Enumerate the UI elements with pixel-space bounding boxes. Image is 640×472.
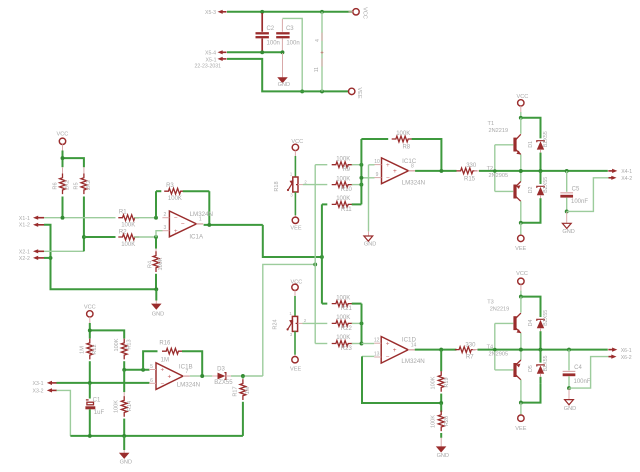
wire VCC to R6/R5 top (62, 151, 64, 159)
resistor R14 100K (123, 392, 125, 396)
svg-text:R2: R2 (119, 229, 127, 235)
junction pin3 node (154, 235, 158, 239)
svg-text:R3: R3 (166, 183, 174, 189)
ground (C4) (568, 388, 570, 399)
svg-text:−: − (174, 215, 178, 222)
svg-text:2K2: 2K2 (86, 180, 92, 190)
svg-text:R9: R9 (342, 167, 350, 173)
svg-text:100K: 100K (114, 400, 120, 413)
capacitor C3 100n (281, 19, 283, 32)
junction R11-R21 bus (320, 255, 324, 259)
wire VCC to R18 (294, 156, 296, 177)
resistor R5 2K2 (83, 167, 85, 174)
wire IC1D input bus (361, 304, 363, 344)
svg-text:+: + (320, 50, 324, 56)
svg-text:R14: R14 (127, 401, 133, 411)
wire T4 base row (495, 369, 514, 371)
supply pin VEE (pot R24) (292, 357, 298, 363)
wire R1 to IC1A pin2 node (134, 217, 156, 219)
svg-text:100K: 100K (336, 295, 350, 301)
junction C3/GND row (281, 50, 285, 54)
IC1 power gate pins 4 and 11 (321, 12, 323, 92)
svg-text:+: + (386, 340, 390, 347)
wire collector rail to zener branch (bottom) (521, 297, 541, 317)
wire IC1D output row (415, 349, 457, 351)
wire R9-R23 vertical bus (314, 165, 316, 344)
resistor R13 100K (123, 339, 125, 344)
wire pin3 node up to IC1A pin3 (156, 231, 163, 237)
diode D3 BZX55 (218, 373, 226, 380)
wire R7 to bottom output stage (478, 349, 608, 351)
resistor R19 100K (440, 350, 442, 372)
junction C1-R12/pin6 row (88, 381, 92, 385)
svg-text:X6-1: X6-1 (621, 348, 632, 354)
junction R6/X1-1 row (61, 216, 65, 220)
svg-text:C1: C1 (93, 397, 101, 403)
svg-text:C4: C4 (574, 365, 582, 371)
junction VCC/R6-R5 (61, 156, 65, 160)
junction R9-R23 bus (313, 262, 317, 266)
svg-text:X2-2: X2-2 (19, 256, 30, 262)
capacitor C1 1uF polarized (89, 383, 91, 399)
junction R19-R20/pin13 loop (439, 401, 443, 405)
junction X2-2/X1-2 net (49, 256, 53, 260)
svg-text:100nF: 100nF (571, 199, 588, 205)
wire R13-R14 chain crossing pin6 row (123, 370, 125, 392)
wire GND net row (X5-4 to C3 bottom) (227, 51, 283, 53)
svg-text:R11: R11 (341, 207, 352, 213)
svg-text:R24: R24 (272, 319, 278, 329)
connector X6-2 wire to GND (569, 357, 609, 389)
svg-text:BZX55: BZX55 (543, 177, 549, 193)
svg-text:VCC: VCC (516, 94, 528, 100)
svg-text:2N2905: 2N2905 (488, 173, 508, 179)
connector X4-1 (612, 169, 617, 173)
wire C3 top to VEE rail (282, 18, 302, 91)
junction R4/GND rail (154, 287, 158, 291)
svg-text:100K: 100K (336, 156, 350, 162)
junction base bus/drive row (bottom) (493, 348, 497, 352)
ground (R20) (440, 438, 442, 447)
wire R11-R21 vertical bus (321, 204, 323, 303)
wire IC1D pin13 feedback loop (362, 356, 441, 403)
svg-text:C3: C3 (286, 26, 294, 32)
connector X5-3 (218, 10, 223, 14)
svg-text:D5: D5 (528, 365, 534, 372)
svg-text:10: 10 (374, 159, 380, 165)
wire IC1C input bus (360, 139, 362, 204)
svg-text:VCC: VCC (362, 7, 368, 19)
resistor R7 330 (455, 347, 476, 353)
svg-text:2K2: 2K2 (65, 180, 71, 190)
supply pin VCC (power section) (353, 9, 359, 15)
svg-text:VEE: VEE (290, 367, 301, 373)
svg-text:100K: 100K (168, 196, 182, 202)
svg-text:+: + (386, 162, 390, 169)
svg-text:GND: GND (364, 242, 376, 248)
svg-text:VCC: VCC (56, 131, 68, 137)
svg-text:12: 12 (374, 338, 380, 344)
svg-text:VCC: VCC (516, 271, 528, 277)
junction C2/top rail (260, 10, 264, 14)
svg-text:+: + (168, 373, 172, 380)
svg-text:R15: R15 (464, 176, 476, 182)
svg-text:BZX55: BZX55 (214, 380, 233, 386)
svg-text:100K: 100K (336, 176, 350, 182)
svg-text:100n: 100n (267, 41, 280, 47)
svg-text:X6-2: X6-2 (621, 355, 632, 361)
wire top rail VCC net (X5-3 to VCC pin) (227, 11, 353, 13)
junction R10/input bus (359, 183, 363, 187)
svg-text:LM324N: LM324N (177, 382, 200, 389)
svg-text:100K: 100K (121, 223, 135, 229)
svg-text:X4-2: X4-2 (621, 176, 632, 182)
wire X2-1 to R2 row (44, 250, 84, 252)
resistor R23 100K (315, 343, 327, 345)
svg-text:R21: R21 (341, 306, 353, 312)
svg-text:100nF: 100nF (573, 379, 590, 385)
wire R15 to output stage (479, 170, 608, 172)
ground (C5) (566, 211, 568, 223)
svg-text:R6: R6 (52, 182, 58, 189)
wire IC1B output up to R9/R23 bus (263, 264, 315, 376)
junction R22/input bus (360, 321, 364, 325)
zener diode D2 BZX55 (540, 171, 542, 184)
svg-text:3: 3 (164, 225, 167, 231)
wire VCC to R12/R13 (89, 323, 91, 330)
op-amp IC1C LM324N (369, 164, 375, 166)
svg-text:IC1D: IC1D (402, 337, 417, 344)
wire T3 base row (495, 322, 514, 324)
svg-text:R19: R19 (444, 377, 450, 387)
wire T2 base row (495, 190, 514, 192)
wire base bus (bottom) (494, 323, 496, 370)
resistor R16 1M (IC1B feedback) (143, 351, 157, 370)
junction R14/GND rail (122, 434, 126, 438)
svg-text:R13: R13 (127, 339, 133, 349)
svg-text:100K: 100K (121, 242, 135, 248)
wire collector rail to zener branch (521, 118, 541, 139)
junction pin2 node (154, 216, 158, 220)
svg-text:2N2219: 2N2219 (488, 128, 508, 134)
junction zener branch/output row (539, 169, 543, 173)
junction base bus/drive row (493, 169, 497, 173)
connector X4-2 wire to GND (567, 178, 609, 212)
resistor R21 100K (322, 303, 327, 305)
junction C1/GND rail (88, 434, 92, 438)
wire GND rail (bottom left) (70, 435, 243, 437)
junction IC1A output/feedback (207, 223, 211, 227)
svg-text:5: 5 (150, 364, 153, 370)
resistor R6 2K2 (62, 167, 64, 174)
resistor R12 1M (89, 339, 91, 344)
svg-text:GND: GND (120, 459, 132, 465)
svg-text:1uF: 1uF (94, 410, 105, 416)
op-amp IC1D LM324N (362, 343, 375, 345)
svg-text:LM324N: LM324N (401, 358, 424, 365)
junction VEE rail (bottom) (519, 401, 523, 405)
svg-text:VEE: VEE (515, 246, 526, 252)
supply pin VEE (power section) (349, 88, 355, 94)
svg-text:−: − (181, 221, 185, 228)
svg-text:R1: R1 (119, 210, 127, 216)
ground (power section) (282, 53, 284, 77)
junction R9/input bus (359, 163, 363, 167)
resistor R8 100K (IC1C feedback) (361, 138, 388, 140)
svg-text:+: + (393, 347, 397, 354)
wire emitter rail to VEE (bottom) (521, 384, 541, 403)
junction output node T1/T2 (519, 169, 523, 173)
junction C4 bottom/GND net (567, 386, 571, 390)
svg-text:BZX55: BZX55 (543, 131, 549, 147)
svg-text:GND: GND (437, 453, 449, 459)
svg-text:VEE: VEE (515, 426, 526, 432)
svg-text:BZX55: BZX55 (543, 310, 549, 326)
svg-text:X5-4: X5-4 (205, 51, 216, 57)
svg-text:100K: 100K (431, 415, 437, 428)
svg-text:2N2219: 2N2219 (490, 306, 510, 312)
resistor R22 100K (332, 321, 353, 327)
svg-text:1M: 1M (161, 357, 169, 363)
svg-text:GND: GND (562, 229, 574, 235)
svg-text:T4: T4 (487, 345, 494, 351)
junction VCC/collector rail (bottom) (519, 295, 523, 299)
resistor R20 100K (440, 403, 442, 412)
svg-text:LM324N: LM324N (402, 179, 425, 186)
svg-text:11: 11 (314, 67, 320, 72)
svg-text:IC1B: IC1B (179, 363, 193, 370)
junction output node T3/T4 (519, 348, 523, 352)
svg-text:D3: D3 (217, 366, 225, 372)
wire R18 wiper to R10 (303, 184, 327, 186)
junction VCC/collector rail (519, 116, 523, 120)
svg-text:330: 330 (465, 343, 476, 349)
svg-text:R5: R5 (74, 182, 80, 189)
svg-text:R7: R7 (466, 354, 474, 360)
op-amp IC1B LM324N (156, 363, 183, 390)
junction IC1C output/R8 feedback (439, 169, 443, 173)
svg-text:+: + (174, 228, 178, 235)
resistor R3 100K (IC1A feedback) (155, 191, 157, 218)
svg-text:C2: C2 (266, 26, 274, 32)
svg-text:VEE: VEE (290, 225, 301, 231)
junction R16/pin5 row (141, 368, 145, 372)
junction VCC/R12-R13 (88, 328, 92, 332)
resistor R2 100K (84, 236, 116, 238)
svg-text:6: 6 (150, 378, 153, 384)
capacitor C4 100nF (567, 348, 571, 352)
resistor R17 1M (242, 376, 244, 378)
wire IC1B output to D3 (190, 375, 202, 377)
ground (IC1A section) (155, 289, 157, 300)
svg-text:R10: R10 (341, 187, 353, 193)
svg-text:X5-3: X5-3 (205, 10, 216, 16)
svg-text:4: 4 (315, 39, 321, 42)
junction zener branch/output row (bottom) (539, 348, 543, 352)
connector X6-1 (612, 348, 617, 352)
junction C5 bottom/GND net (565, 209, 569, 213)
junction C2/GND row (260, 50, 264, 54)
svg-text:1M: 1M (245, 386, 251, 394)
wire T1 base row (495, 144, 514, 146)
svg-text:T1: T1 (488, 121, 495, 127)
junction D3/R17 (241, 374, 245, 378)
svg-text:+: + (393, 168, 397, 175)
capacitor C5 100nF (565, 169, 569, 173)
zener diode D5 BZX55 (540, 350, 542, 363)
svg-text:X4-1: X4-1 (621, 169, 632, 175)
svg-text:R23: R23 (341, 346, 353, 352)
svg-text:VCC: VCC (84, 304, 96, 310)
wire IC1C pin10 to ground (368, 165, 370, 232)
connector X5-1 (218, 57, 223, 61)
resistor R11 100K (322, 203, 327, 205)
resistor R1 100K (118, 215, 139, 221)
svg-text:R22: R22 (341, 326, 353, 332)
svg-text:9: 9 (376, 172, 379, 178)
svg-text:100K: 100K (336, 315, 350, 321)
svg-text:D4: D4 (528, 319, 534, 326)
zener diode D1 BZX55 (537, 141, 544, 143)
op-amp IC1A LM324N (169, 211, 196, 237)
wire X3-1 / pin6 row (57, 382, 150, 384)
svg-text:100K: 100K (114, 338, 120, 351)
junction IC1B output/R16 (200, 374, 204, 378)
svg-text:100K: 100K (336, 196, 350, 202)
svg-text:+: + (161, 367, 165, 374)
resistor R9 100K (315, 164, 327, 166)
wire X3-2 to GND rail (57, 390, 71, 436)
svg-text:100n: 100n (286, 41, 299, 47)
svg-text:22-23-2031: 22-23-2031 (195, 63, 222, 69)
svg-text:330: 330 (466, 163, 477, 169)
svg-text:D1: D1 (528, 141, 534, 148)
svg-text:R8: R8 (402, 145, 410, 151)
wire emitter rail to VEE (521, 204, 541, 223)
ground (IC1B section) (123, 436, 125, 450)
wire IC1C output row (415, 170, 456, 172)
svg-text:R17: R17 (233, 386, 239, 396)
wire R18 to VEE (294, 192, 296, 215)
svg-text:X3-1: X3-1 (33, 381, 44, 387)
svg-text:GND: GND (564, 406, 576, 412)
svg-text:R16: R16 (159, 341, 171, 347)
svg-text:X1-1: X1-1 (19, 216, 30, 222)
svg-text:T3: T3 (487, 299, 494, 305)
junction R5/R2 row (82, 235, 86, 239)
svg-text:R12: R12 (92, 344, 98, 354)
potentiometer R18 (293, 177, 298, 192)
wire X1-2 down to X2-2 and GND rail (44, 225, 156, 289)
svg-text:R4: R4 (148, 261, 154, 268)
junction R13/pin5 row (122, 368, 126, 372)
capacitor C2 100n (261, 13, 263, 32)
svg-text:X3-2: X3-2 (33, 389, 44, 395)
junction IC1D output/R19 (439, 348, 443, 352)
svg-text:R18: R18 (274, 181, 280, 191)
resistor R4 100K (155, 237, 157, 249)
wire X1-1 row to R1 (44, 217, 116, 219)
svg-text:100K: 100K (431, 376, 437, 389)
junction pin9/input bus (359, 176, 363, 180)
svg-text:BZX55: BZX55 (543, 355, 549, 371)
svg-text:X1-2: X1-2 (19, 223, 30, 229)
supply pin VEE (bottom output stage) (518, 415, 524, 421)
zener diode D4 BZX55 (537, 319, 544, 321)
svg-text:IC1C: IC1C (402, 158, 417, 165)
svg-text:R20: R20 (444, 416, 450, 426)
svg-text:−: − (386, 354, 390, 361)
junction C3-branch/VEE rail (300, 89, 304, 93)
junction power-pin-4/top rail (320, 10, 324, 14)
svg-text:2N2905: 2N2905 (488, 352, 508, 358)
svg-text:13: 13 (374, 352, 380, 358)
resistor R10 100K (332, 182, 353, 188)
ground (IC1C pin9) (364, 236, 373, 241)
resistor R15 330 (456, 168, 477, 174)
svg-text:X2-1: X2-1 (19, 249, 30, 255)
wire R24 wiper to R22 (303, 322, 328, 324)
wire X5-1 to VEE rail (227, 59, 349, 92)
svg-text:GND: GND (152, 312, 164, 318)
svg-text:100K: 100K (396, 131, 410, 137)
wire IC1B pin5 row (124, 369, 149, 371)
svg-text:C5: C5 (572, 186, 580, 192)
wire R24 to VEE (294, 331, 296, 354)
potentiometer R24 (292, 316, 297, 331)
svg-text:100K: 100K (336, 335, 350, 341)
wire base bus (494, 145, 496, 192)
wire IC1A output (204, 224, 263, 226)
svg-text:GND: GND (278, 82, 290, 88)
wire D3 to R17 node (231, 375, 263, 377)
connector X5-4 (218, 50, 223, 54)
supply pin VEE (pot R18) (292, 217, 298, 223)
svg-text:−: − (386, 175, 390, 182)
junction power-pin-11/VEE rail (320, 89, 324, 93)
svg-text:T2: T2 (487, 166, 494, 172)
junction VEE rail (519, 221, 523, 225)
svg-text:VEE: VEE (356, 87, 362, 98)
svg-text:2: 2 (164, 212, 167, 218)
supply pin VEE (top output stage) (518, 235, 524, 241)
svg-text:LM324N: LM324N (190, 211, 213, 218)
wire IC1A output to bottom channel (R11/R21 bus) (263, 225, 322, 257)
wire R2 to pin3 node (134, 236, 156, 238)
svg-text:1M: 1M (79, 346, 85, 354)
svg-text:−: − (161, 381, 165, 388)
junction R23-pin12/input bus (360, 342, 364, 346)
svg-text:100K: 100K (158, 257, 164, 270)
svg-text:IC1A: IC1A (189, 234, 204, 241)
svg-text:D2: D2 (528, 186, 534, 193)
